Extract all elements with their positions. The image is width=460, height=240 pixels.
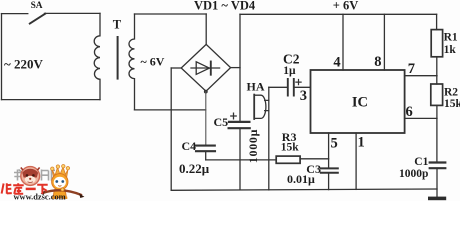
wire speaker vertical x269: [268, 87, 270, 190]
svg-text:0.22μ: 0.22μ: [179, 161, 210, 176]
wire top rail right segment: [240, 13, 437, 15]
svg-text:1μ: 1μ: [283, 65, 296, 77]
watermark gray char left: [14, 170, 24, 181]
svg-text:VD1 ~ VD4: VD1 ~ VD4: [194, 0, 256, 13]
wire pin4: [342, 14, 344, 70]
ground bar: [428, 197, 446, 201]
wire mains bottom: [2, 99, 101, 101]
wire bridge bottom to C4: [205, 92, 207, 145]
wire R2 to C1: [436, 105, 438, 161]
wire C2 right to pin3: [295, 86, 311, 88]
wire vertical x240 lower: [239, 129, 241, 190]
wire R3 right to pin5: [300, 158, 329, 160]
svg-text:0.01μ: 0.01μ: [287, 172, 315, 186]
wire top rail left segment: [135, 13, 207, 15]
svg-text:1: 1: [358, 135, 365, 151]
wire pin6: [405, 117, 437, 119]
transformer T core: [117, 37, 119, 79]
svg-text:1000μ: 1000μ: [246, 129, 260, 163]
svg-text:SA: SA: [31, 1, 43, 11]
svg-text:1k: 1k: [444, 44, 457, 56]
resistor R3 body: [276, 156, 300, 163]
wire pin8: [383, 14, 385, 70]
wire C2 left: [269, 86, 287, 88]
svg-text:~ 6V: ~ 6V: [141, 54, 165, 68]
svg-text:~ 220V: ~ 220V: [4, 56, 44, 71]
node junction dot bridge bottom: [204, 90, 208, 94]
watermark mascot pen: [43, 190, 82, 195]
op-amp IC box U1: [311, 70, 405, 133]
wire R1 top: [436, 14, 438, 29]
svg-text:T: T: [113, 18, 122, 32]
capacitor C1 plates: [430, 163, 446, 169]
capacitor C2 plates: [288, 79, 294, 96]
wire pin5: [328, 133, 330, 167]
wire left vertical x171: [170, 68, 172, 190]
capacitor C3 plates: [321, 168, 338, 172]
wire R3 left horizontal: [206, 159, 277, 161]
svg-text:15k: 15k: [444, 98, 460, 110]
svg-text:C5: C5: [214, 115, 229, 129]
svg-text:1000p: 1000p: [399, 168, 428, 180]
wire bridge left to vertical: [171, 67, 181, 69]
bridge diode line: [191, 67, 220, 69]
wire bottom rail: [171, 189, 437, 190]
bridge diode cathode bar: [210, 62, 212, 75]
wire switch to transformer: [45, 12, 101, 14]
watermark mascot: [41, 165, 85, 200]
svg-text:C4: C4: [182, 139, 197, 153]
buzzer HA outline: [254, 95, 266, 118]
bridge diode triangle: [196, 62, 209, 75]
resistor R2 body: [431, 84, 443, 105]
wire C3 bottom stub: [328, 174, 330, 190]
svg-text:HA: HA: [247, 80, 265, 94]
buzzer HA terminals: [265, 100, 269, 110]
capacitor C4 plates: [196, 146, 215, 152]
svg-text:4: 4: [333, 54, 340, 70]
svg-text:R1: R1: [444, 32, 458, 44]
svg-text:6: 6: [406, 104, 413, 120]
buzzer HA body: [253, 95, 255, 119]
svg-text:IC: IC: [352, 95, 368, 111]
switch SA blade: [30, 14, 45, 24]
watermark text weiku fake glyphs: [2, 183, 48, 194]
wire secondary bottom horizontal: [135, 109, 206, 111]
svg-text:+ 6V: + 6V: [333, 0, 359, 13]
svg-text:5: 5: [331, 136, 338, 152]
transformer T primary winding: [94, 13, 100, 99]
watermark stamp circle: [21, 167, 40, 186]
svg-text:C1: C1: [414, 156, 428, 168]
wire R1 to R2: [436, 57, 438, 84]
wire bridge right to vertical: [231, 67, 240, 69]
wire C4 bottom stub: [205, 152, 207, 160]
bridge rectifier VD1~VD4 diamond: [181, 44, 230, 91]
wire pin1: [355, 133, 357, 189]
capacitor C5 polarity plus: [231, 113, 236, 119]
capacitor C2 polarity plus: [296, 80, 301, 85]
capacitor C5 plates: [229, 122, 250, 128]
resistor R1 body: [431, 30, 442, 57]
svg-text:7: 7: [408, 61, 415, 77]
wire mains left vertical: [1, 14, 3, 100]
watermark gray char right: [42, 170, 56, 181]
svg-text:8: 8: [374, 54, 381, 70]
wire C1 to ground: [436, 169, 438, 197]
svg-text:15k: 15k: [281, 142, 300, 154]
transformer T secondary winding: [129, 14, 135, 110]
svg-text:3: 3: [300, 88, 307, 104]
wire vertical x240 upper: [239, 14, 241, 121]
wire bridge top lead: [205, 14, 207, 44]
wire pin7: [405, 75, 437, 77]
svg-text:R2: R2: [444, 87, 458, 99]
wire mains top-left: [2, 13, 28, 15]
svg-text:www.dzsc.com: www.dzsc.com: [14, 192, 66, 201]
